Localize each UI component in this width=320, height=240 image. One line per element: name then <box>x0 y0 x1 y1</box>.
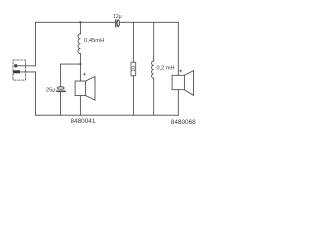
wire top rail right section <box>119 21 178 23</box>
wire coil L2 branch from top rail <box>153 22 155 61</box>
wire from mid junction down to capacitor C1 <box>60 64 62 87</box>
wire from top rail down to coil L1 <box>79 22 81 34</box>
wire resistor R1 branch from top rail <box>132 22 134 62</box>
capacitor C1 25u flat plate <box>57 90 65 92</box>
wire down riser to bottom rail <box>35 72 37 115</box>
connector plug sleeve contact (bar) <box>13 70 20 73</box>
wire from resistor R1 to bottom rail <box>132 76 134 115</box>
wire from loudspeaker LS2 to bottom rail <box>177 90 179 116</box>
loudspeaker LS1 horn <box>86 77 95 101</box>
wire from plug sleeve to down riser <box>20 71 36 73</box>
svg-text:0,2 mH: 0,2 mH <box>157 66 175 72</box>
capacitor C1 25u curved plate <box>57 87 64 90</box>
wire from mid junction down to loudspeaker LS1 <box>79 64 81 81</box>
wire top rail left section <box>36 21 116 23</box>
svg-text:0,45mH: 0,45mH <box>84 38 104 44</box>
loudspeaker LS2 polarity plus <box>180 70 182 72</box>
connector plug X1 dashed housing <box>13 60 25 80</box>
wire from coil L2 to bottom rail <box>153 78 155 115</box>
loudspeaker LS1 box <box>75 81 86 96</box>
svg-text:12μ: 12μ <box>113 14 122 20</box>
wire mid horizontal to capacitor C1 branch <box>61 63 81 65</box>
node junction at mid wire / speaker branch <box>79 63 81 65</box>
wire bottom rail <box>36 114 179 116</box>
inductor L1 0,45 mH <box>78 34 80 54</box>
wire from coil L1 down to mid junction <box>79 54 81 65</box>
wire left riser from plug tip up to top rail <box>35 22 37 66</box>
connector plug tip contact (dot) <box>14 64 17 67</box>
inductor L2 0,2 mH <box>152 61 154 78</box>
resistor R1 body <box>131 62 136 76</box>
loudspeaker LS2 horn <box>184 71 193 96</box>
svg-text:8480068: 8480068 <box>171 119 196 126</box>
loudspeaker LS2 box <box>172 75 184 89</box>
wire from loudspeaker LS1 to bottom rail <box>79 96 81 116</box>
svg-text:25μ: 25μ <box>46 87 55 93</box>
wire from capacitor C1 to bottom rail <box>60 92 62 115</box>
capacitor C2 12u curved plate <box>117 20 119 27</box>
svg-text:10: 10 <box>131 66 137 72</box>
loudspeaker LS1 polarity plus <box>83 73 85 75</box>
wire from plug tip to riser <box>16 65 36 67</box>
wire from top rail corner down to loudspeaker LS2 <box>177 22 179 75</box>
svg-text:8480041: 8480041 <box>71 118 96 125</box>
node junction dot at top rail / coil L1 branch <box>79 21 81 23</box>
capacitor C2 12u flat plate <box>115 20 117 27</box>
